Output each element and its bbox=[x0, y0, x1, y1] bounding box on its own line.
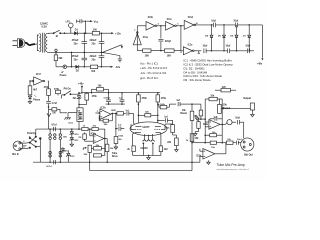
capacitor C15 1uf out bbox=[176, 100, 192, 106]
svg-text:470k: 470k bbox=[44, 86, 50, 89]
capacitor C20 10uf b bbox=[233, 139, 242, 145]
svg-text:Bal Out: Bal Out bbox=[244, 153, 253, 156]
svg-text:IC2a: IC2a bbox=[91, 133, 97, 136]
note gnd pin bbox=[140, 76, 158, 80]
ground R31 bbox=[114, 145, 118, 149]
resistor RA 1k bbox=[82, 125, 92, 130]
tube cathodes bbox=[136, 131, 160, 133]
svg-text:Drive: Drive bbox=[112, 156, 118, 158]
svg-text:0.68uf: 0.68uf bbox=[104, 97, 111, 99]
resistor R7 10K bbox=[137, 47, 164, 58]
XLR Bal Out bbox=[241, 138, 254, 151]
svg-text:1M: 1M bbox=[78, 137, 81, 139]
wire cathode rail bbox=[133, 155, 161, 157]
transformer T1 primary bbox=[39, 34, 41, 52]
resistor R2 390 bbox=[54, 55, 63, 61]
label Polarity bbox=[27, 132, 36, 135]
gnd below D11 bbox=[70, 142, 74, 146]
feedback IC3b bbox=[0, 0, 1, 1]
heater drops bbox=[143, 143, 154, 156]
svg-text:100R: 100R bbox=[111, 110, 116, 112]
resistor R10 470k bbox=[78, 93, 97, 105]
svg-text:IC1c: IC1c bbox=[167, 18, 173, 21]
+48v feed arrow bbox=[78, 82, 84, 93]
heater humps bbox=[143, 140, 155, 142]
ground Y upper bbox=[102, 45, 123, 53]
note D4 D8 bbox=[184, 70, 208, 74]
XLR Mic In bbox=[13, 141, 23, 151]
wire IC3b input row bbox=[186, 140, 206, 143]
comp pair C bbox=[59, 129, 67, 162]
diode D6 bbox=[230, 25, 238, 52]
chassis gnd near R6 bbox=[57, 109, 67, 113]
svg-text:10uf: 10uf bbox=[235, 117, 240, 119]
svg-text:25v: 25v bbox=[92, 43, 97, 46]
svg-text:IC1a: IC1a bbox=[143, 36, 149, 39]
resistor R21 bbox=[199, 104, 205, 120]
zener D11 bbox=[70, 135, 80, 143]
svg-text:gnd - Pin 8 IC1: gnd - Pin 8 IC1 bbox=[140, 76, 158, 80]
svg-text:220pf: 220pf bbox=[165, 41, 171, 43]
wire to XLR pin2 bbox=[243, 122, 245, 138]
wire cord to primary bbox=[35, 35, 39, 51]
tube V1 12AT7 bbox=[130, 122, 167, 136]
wire fb top IC2a bbox=[104, 129, 106, 138]
heater label 12VAC bbox=[140, 147, 148, 150]
wire D2 to R3 bbox=[79, 66, 91, 68]
resistor R7b 10K bbox=[164, 49, 181, 58]
zener D12 bbox=[61, 147, 70, 153]
capacitor C19 10uf bbox=[235, 117, 244, 124]
wire secondary top to switch bbox=[47, 32, 53, 34]
svg-text:LP1: LP1 bbox=[66, 22, 71, 24]
transformer T1 core bbox=[43, 33, 45, 53]
svg-text:10uf: 10uf bbox=[203, 45, 208, 47]
node 0V tap bbox=[55, 49, 57, 55]
svg-text:10uf: 10uf bbox=[237, 139, 242, 141]
capacitor C3 220uF bbox=[90, 33, 105, 52]
svg-text:10: 10 bbox=[196, 23, 198, 25]
switch S1 on-off bbox=[53, 30, 61, 34]
transformer T1 secondary bbox=[46, 34, 48, 52]
svg-text:Vcc: Vcc bbox=[94, 20, 99, 24]
comp pair A bbox=[49, 129, 52, 162]
svg-text:Tube: Tube bbox=[112, 153, 118, 155]
inverter IC1e bbox=[180, 44, 194, 54]
svg-text:1M: 1M bbox=[52, 113, 55, 115]
switch PH On bbox=[64, 89, 82, 96]
resistor R3 100 bbox=[91, 65, 98, 73]
capacitor C14 1uf grid bbox=[124, 110, 135, 125]
tube grid wire right bbox=[161, 124, 165, 130]
svg-text:+48v: +48v bbox=[78, 82, 84, 85]
svg-text:270k: 270k bbox=[161, 98, 167, 100]
wire IC2b input bbox=[95, 111, 100, 114]
capacitor C11b 10uf bbox=[245, 45, 254, 53]
comp pair A2 bbox=[49, 151, 52, 157]
svg-text:1uf: 1uf bbox=[164, 116, 168, 118]
svg-text:IC3a: IC3a bbox=[203, 124, 209, 126]
capacitor C8 10uf bbox=[211, 21, 235, 28]
svg-text:2: 2 bbox=[23, 141, 24, 143]
feedback loop IC2b bbox=[99, 113, 112, 126]
label Mic In bbox=[12, 153, 19, 156]
switch S1 label bbox=[56, 35, 58, 38]
zener D10 bbox=[70, 129, 80, 136]
wire grid right join bbox=[165, 123, 173, 125]
svg-text:1uF: 1uF bbox=[213, 116, 218, 118]
comp pair B bbox=[54, 134, 57, 140]
capacitor C13 1uf bbox=[119, 93, 125, 104]
pot wiper blend bbox=[194, 115, 199, 120]
feedback R23 10k bbox=[204, 95, 223, 142]
pot VR2 10k output bbox=[218, 99, 231, 113]
capacitor C2 470uF bbox=[72, 33, 88, 52]
diode D4 bbox=[205, 24, 213, 51]
svg-text:Polarity: Polarity bbox=[27, 132, 36, 135]
wire IC1b-IC1c bbox=[157, 22, 166, 25]
diode D5 bbox=[218, 24, 226, 51]
ground jack bbox=[251, 112, 255, 116]
zener D13 bbox=[66, 151, 75, 162]
wire R2 to LED bbox=[56, 61, 63, 67]
svg-text:-12v - Pin 4 IC2 & IC3: -12v - Pin 4 IC2 & IC3 bbox=[140, 71, 167, 75]
label Tube Drive bbox=[112, 153, 118, 158]
inverter IC1d bbox=[184, 16, 198, 29]
svg-text:25v: 25v bbox=[74, 43, 79, 46]
chassis ground stack bbox=[64, 113, 77, 120]
svg-text:IC1d: IC1d bbox=[188, 16, 194, 19]
svg-text:25v: 25v bbox=[92, 59, 97, 62]
opamp IC2a bbox=[91, 133, 104, 144]
svg-text:270k: 270k bbox=[142, 98, 148, 100]
svg-text:10K: 10K bbox=[167, 54, 172, 57]
resistor R14 270k bbox=[156, 93, 167, 123]
svg-text:+12v: +12v bbox=[115, 31, 121, 35]
power cord bbox=[25, 43, 35, 46]
wire osc fb down bbox=[180, 26, 182, 51]
note -12v pin bbox=[140, 71, 167, 75]
capacitor C21 4.7uf bbox=[51, 124, 57, 132]
pot VR3 wiper bbox=[83, 147, 87, 150]
wire IC3b out up bbox=[215, 143, 226, 154]
capacitor C12 0.68uf bbox=[104, 93, 111, 104]
feedback C17 1uF bbox=[210, 116, 222, 120]
resistor R62 62k bbox=[138, 112, 159, 117]
capacitor C14b 1uf bbox=[115, 113, 124, 130]
capacitor C6 4.7uf bbox=[46, 95, 57, 129]
svg-text:1uf: 1uf bbox=[176, 100, 180, 102]
svg-text:+48v: +48v bbox=[257, 63, 263, 66]
svg-text:Mic In: Mic In bbox=[12, 153, 19, 156]
lamp LP1 bbox=[66, 22, 74, 34]
switch polarity bbox=[29, 136, 37, 149]
inverter IC1a bbox=[133, 26, 148, 47]
rail B+ bbox=[82, 92, 160, 94]
resistor R30 bbox=[94, 148, 105, 157]
svg-text:Power: Power bbox=[60, 75, 67, 77]
svg-text:D9 : 33v Zener Diode: D9 : 33v Zener Diode bbox=[184, 78, 211, 82]
svg-text:160k: 160k bbox=[160, 104, 166, 106]
note zener 33v bbox=[184, 78, 211, 82]
capacitor C7 220pf bbox=[158, 25, 171, 51]
note IC1 bbox=[184, 59, 232, 63]
ground Y lower bbox=[102, 52, 122, 61]
LED power bbox=[60, 65, 67, 77]
jack J1 bbox=[234, 103, 255, 112]
diode D2 bbox=[76, 65, 80, 73]
resistor R5 470k bbox=[44, 81, 51, 95]
pot wiper output bbox=[221, 107, 234, 109]
svg-text:12AT7: 12AT7 bbox=[142, 126, 150, 129]
LED phase bbox=[28, 95, 40, 102]
svg-text:PH On: PH On bbox=[64, 89, 72, 91]
wire switch to D1 bbox=[60, 32, 74, 34]
wire polarity up bbox=[29, 136, 31, 138]
label Gain line1 bbox=[68, 123, 74, 125]
svg-text:10uf: 10uf bbox=[226, 45, 231, 47]
ground below phase LED bbox=[28, 99, 32, 103]
svg-text:10uf: 10uf bbox=[211, 21, 216, 23]
svg-text:4%: 4% bbox=[119, 138, 122, 141]
resistor R17 2k2 bbox=[159, 146, 168, 156]
-12v arrow bbox=[104, 65, 121, 69]
svg-text:10uf: 10uf bbox=[233, 21, 238, 23]
capacitor C9 10uf bbox=[233, 21, 262, 28]
svg-text:100: 100 bbox=[91, 70, 96, 73]
svg-text:Phase: Phase bbox=[33, 98, 41, 101]
svg-text:+12v - Pin 8 IC2 & IC3: +12v - Pin 8 IC2 & IC3 bbox=[140, 66, 167, 70]
+12v arrow bbox=[104, 31, 121, 35]
svg-text:Output: Output bbox=[243, 97, 251, 100]
wire D1 to R1 bbox=[78, 32, 93, 34]
subtitle bbox=[217, 168, 249, 171]
svg-text:12VAC: 12VAC bbox=[140, 147, 148, 150]
resistor R1 100 bbox=[92, 28, 99, 35]
XLR pin wires bbox=[21, 141, 30, 149]
capacitor C1 Vcc bbox=[77, 19, 86, 23]
wire IC3a out bbox=[220, 123, 227, 125]
inverter IC1c bbox=[166, 18, 177, 30]
power plug P1 bbox=[13, 39, 25, 48]
feedback IC2a bbox=[91, 139, 104, 151]
wire LED to D2 bbox=[67, 66, 76, 68]
tube grid wire left bbox=[131, 124, 135, 130]
svg-text:Gain: Gain bbox=[68, 123, 74, 125]
svg-text:4.7uf: 4.7uf bbox=[51, 124, 57, 127]
wire junction down bbox=[192, 104, 201, 111]
note +12v pin bbox=[140, 66, 167, 70]
svg-text:0.3A: 0.3A bbox=[42, 24, 48, 28]
resistor R11 10k grid bbox=[92, 86, 109, 93]
svg-text:4.7uf: 4.7uf bbox=[46, 165, 51, 168]
resistor R12 100R bbox=[111, 110, 124, 115]
wire IC1a to IC1b bbox=[137, 25, 146, 27]
resistor R18 100k bbox=[165, 120, 175, 135]
box D9 stack bbox=[77, 108, 83, 122]
resistor R6 1M bbox=[49, 108, 57, 115]
transformer T1 label bbox=[40, 21, 48, 28]
node Vcc bbox=[85, 20, 87, 34]
svg-text:IC1e: IC1e bbox=[188, 44, 194, 46]
opamp IC3a bbox=[209, 120, 220, 130]
ground bus mic bbox=[33, 160, 192, 168]
resistor R31 150k bbox=[114, 129, 124, 145]
heater pins bbox=[144, 134, 152, 140]
capacitor C11 10uf bbox=[226, 45, 248, 53]
note IC2 IC3 bbox=[184, 63, 234, 67]
svg-text:470k: 470k bbox=[54, 87, 60, 90]
svg-text:IC1b: IC1b bbox=[148, 16, 154, 19]
resistor R15 160k bbox=[158, 104, 176, 109]
inverter IC1f bbox=[32, 73, 45, 85]
wire IC1f input bbox=[29, 80, 32, 82]
wire mid tap down bbox=[71, 52, 73, 67]
resistor R24 10k bbox=[204, 132, 222, 137]
arrow on C6 column bbox=[47, 113, 51, 116]
svg-text:IC2b: IC2b bbox=[100, 106, 106, 109]
capacitor C18 10uf circle bbox=[227, 120, 236, 125]
svg-text:-12v: -12v bbox=[115, 65, 121, 69]
svg-text:11: 11 bbox=[180, 52, 182, 54]
cathode wire left bbox=[133, 132, 136, 146]
resistor RB 47k bbox=[92, 124, 105, 130]
svg-text:150k: 150k bbox=[118, 135, 124, 137]
label Bal Out bbox=[244, 153, 253, 156]
wire pump out bbox=[261, 25, 263, 58]
wire IC3b plus gnd bbox=[200, 149, 210, 165]
resistor R16 2k bbox=[127, 146, 135, 156]
line1 signal hot bbox=[36, 128, 82, 130]
wire 0V rail bbox=[47, 52, 104, 54]
wire IC2a plus in bbox=[90, 129, 94, 136]
wire polarity bottom bbox=[36, 137, 42, 162]
resistor R22 bbox=[193, 119, 201, 136]
svg-text:1uf: 1uf bbox=[125, 110, 129, 112]
wire IC2a out bbox=[104, 138, 107, 140]
cathode wire right bbox=[159, 132, 162, 146]
ground below 22k bbox=[175, 148, 179, 152]
svg-text:4.7uf: 4.7uf bbox=[52, 102, 58, 105]
svg-text:1uf: 1uf bbox=[118, 125, 122, 127]
comp pair C2 bbox=[59, 151, 62, 157]
resistor R13 270k bbox=[137, 93, 148, 123]
wire IC1f out bbox=[47, 80, 50, 82]
svg-text:3: 3 bbox=[97, 111, 98, 113]
note D1 D2 bbox=[184, 67, 206, 71]
svg-text:470k: 470k bbox=[92, 95, 98, 98]
resistor R4 4k7 bbox=[28, 81, 38, 95]
svg-text:6: 6 bbox=[177, 23, 178, 25]
svg-text:390: 390 bbox=[58, 57, 63, 60]
resistor R25 10k bbox=[205, 141, 226, 149]
resistor R19 22k bbox=[167, 135, 178, 148]
opamp IC3b bbox=[196, 149, 215, 160]
zener D8 bbox=[73, 92, 82, 108]
tube grids bbox=[135, 129, 161, 131]
wire R3 to -12v bbox=[98, 66, 104, 68]
pot VR1 10k blend bbox=[180, 110, 193, 142]
diode D1 bbox=[74, 28, 78, 35]
svg-text:3: 3 bbox=[134, 29, 135, 31]
capacitor C4 470uF bbox=[72, 52, 88, 66]
svg-text:100: 100 bbox=[93, 28, 98, 31]
wire IC1d out bbox=[195, 24, 214, 26]
+48v arrow right bbox=[257, 58, 264, 65]
pot VR3 gain bbox=[84, 145, 92, 162]
svg-text:IC1f: IC1f bbox=[36, 73, 41, 76]
note Vcc pin bbox=[140, 61, 158, 65]
svg-text:3: 3 bbox=[23, 147, 24, 149]
svg-text:M: M bbox=[56, 35, 58, 38]
resistor R20 15k bbox=[190, 134, 199, 171]
svg-text:+V: +V bbox=[61, 72, 64, 74]
wire mid stub bbox=[106, 103, 126, 105]
wire R1 to +12v bbox=[100, 32, 105, 34]
zener D9 lower bbox=[78, 113, 82, 130]
inverter IC1b bbox=[146, 16, 157, 30]
svg-text:Blend: Blend bbox=[180, 113, 187, 115]
resistor R8 226 bbox=[215, 87, 236, 92]
wire cold into IC2a bbox=[0, 0, 1, 1]
ground cathode rail bbox=[147, 155, 151, 159]
opamp IC2b bbox=[100, 106, 111, 119]
svg-text:10uf: 10uf bbox=[245, 45, 250, 47]
diode D7 bbox=[243, 24, 251, 51]
svg-text:10K: 10K bbox=[145, 54, 150, 57]
Vcc arrow bbox=[87, 20, 99, 24]
resistor R26 100 bbox=[226, 139, 233, 144]
wire IC3b minus bbox=[191, 156, 203, 163]
label IC3a bbox=[203, 124, 209, 126]
resistor R9 470k bbox=[54, 87, 64, 98]
resistor R29 1M cold bbox=[78, 132, 93, 141]
wire bottom bus long bbox=[90, 162, 192, 170]
note zeners 6v8 bbox=[184, 74, 223, 78]
wire polarity out top bbox=[35, 129, 37, 137]
wire IC1c-IC1d bbox=[177, 23, 185, 26]
label Output jack bbox=[243, 97, 251, 100]
gnd tick IC1e bbox=[194, 51, 201, 54]
capacitor C10 10uf bbox=[203, 45, 228, 53]
capacitor C5 220uF bbox=[90, 52, 105, 67]
svg-text:4k7: 4k7 bbox=[33, 89, 38, 92]
wire IC2b out bbox=[111, 113, 117, 115]
capacitor C16 1uf fb bbox=[157, 116, 173, 122]
svg-text:100k: 100k bbox=[165, 127, 171, 129]
resistor R32 13k bbox=[105, 139, 114, 163]
title Tube Mic Pre-Amp bbox=[217, 163, 245, 167]
tube plates bbox=[135, 125, 160, 127]
svg-text:Tube Mic Pre-Amp: Tube Mic Pre-Amp bbox=[217, 163, 245, 167]
svg-text:Vcc - Pin 1 IC1: Vcc - Pin 1 IC1 bbox=[140, 61, 158, 65]
svg-text:25v: 25v bbox=[74, 59, 79, 62]
